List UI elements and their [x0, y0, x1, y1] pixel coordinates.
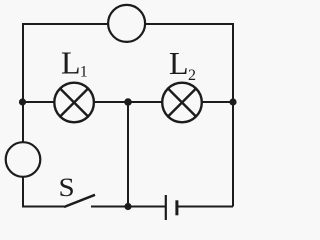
lamp L1 [54, 83, 94, 123]
svg-text:S: S [59, 172, 75, 201]
meter left (circle) [6, 142, 41, 177]
wire left vertical [22, 23, 24, 206]
svg-text:2: 2 [188, 67, 196, 84]
wire bottom right segment [178, 206, 234, 208]
wire middle vertical [127, 102, 129, 207]
lamp L2 [162, 83, 202, 123]
junction node right [229, 98, 236, 105]
wire middle horizontal [23, 101, 233, 103]
wire bottom middle segment [91, 206, 165, 208]
wire top [23, 23, 233, 25]
svg-text:L: L [61, 45, 81, 81]
meter top (circle) [108, 5, 145, 42]
wire right vertical [232, 23, 234, 207]
junction node left [19, 98, 26, 105]
switch S blade [64, 195, 95, 207]
junction node bottom [124, 203, 131, 210]
svg-text:L: L [169, 45, 189, 81]
junction node center [124, 98, 132, 106]
svg-text:1: 1 [80, 64, 88, 81]
battery long plate [165, 195, 167, 220]
wire bottom left segment [22, 206, 64, 208]
battery short plate [175, 200, 178, 215]
